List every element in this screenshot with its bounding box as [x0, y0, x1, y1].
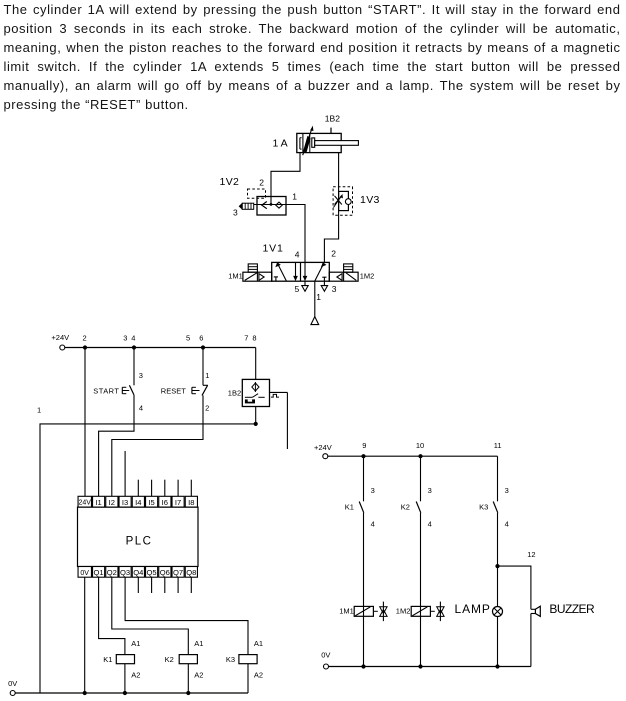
svg-text:Q4: Q4 [133, 568, 143, 577]
svg-text:I1: I1 [95, 498, 101, 507]
junction node wire 10 [418, 454, 422, 458]
solenoid 1M1 of valve 1V1 [228, 264, 271, 281]
svg-text:12: 12 [527, 550, 535, 559]
svg-text:10: 10 [416, 441, 424, 450]
svg-text:A1: A1 [194, 639, 203, 648]
svg-text:4: 4 [295, 250, 300, 260]
svg-text:Q8: Q8 [186, 568, 196, 577]
port labels of valve 1V1 [295, 249, 337, 302]
svg-text:4: 4 [139, 403, 143, 412]
+24V rail (right ladder) [328, 455, 498, 457]
svg-text:1M2: 1M2 [360, 271, 375, 280]
svg-text:1: 1 [316, 292, 321, 302]
svg-text:3: 3 [233, 208, 238, 218]
svg-text:I5: I5 [148, 498, 154, 507]
svg-text:0V: 0V [80, 570, 89, 577]
wire PLC output Q3 to relay K3 [125, 577, 248, 654]
wire RESET to PLC input I2 [112, 395, 203, 496]
wire 12 to buzzer [498, 550, 536, 609]
+24V rail (left ladder) [65, 347, 256, 349]
PLC body [78, 507, 199, 566]
svg-text:0V: 0V [8, 679, 17, 688]
svg-text:+24V: +24V [314, 443, 332, 452]
relay contact K2 (NO) [401, 456, 432, 528]
svg-text:I7: I7 [175, 498, 181, 507]
svg-text:Q6: Q6 [160, 568, 170, 577]
wire cylinder right port to throttle 1V3 and valve 1V1 port 2 [324, 153, 338, 263]
wire PLC output Q1 to relay K1 [99, 577, 125, 654]
svg-text:RESET: RESET [161, 386, 186, 395]
svg-text:3: 3 [139, 371, 143, 380]
wire number labels above rail [83, 334, 257, 343]
silencer at 1V2 port 3 [233, 203, 257, 217]
valve link symbol at 1M1 [380, 602, 387, 622]
svg-text:1B2: 1B2 [228, 388, 241, 397]
svg-text:Q2: Q2 [107, 568, 117, 577]
svg-text:Q3: Q3 [120, 568, 130, 577]
wire sensor 1B2 bottom to node [254, 407, 258, 427]
svg-text:A1: A1 [254, 639, 263, 648]
svg-text:5: 5 [186, 334, 190, 343]
svg-text:3: 3 [428, 486, 432, 495]
svg-text:2: 2 [205, 403, 209, 412]
svg-text:1M1: 1M1 [228, 271, 243, 280]
svg-text:K3: K3 [479, 503, 488, 512]
0V supply terminal (right ladder) [321, 651, 330, 670]
svg-text:K2: K2 [401, 503, 410, 512]
wire PLC 0V to 0V rail [83, 577, 87, 695]
svg-text:K1: K1 [345, 503, 354, 512]
one-way flow control valve 1V3 [333, 187, 380, 215]
wire K2 contact to solenoid 1M2 [418, 513, 422, 669]
stubs PLC outputs Q4-Q8 [138, 577, 191, 593]
relay contact K1 (NO) [345, 456, 375, 528]
sensor mark 1B2 on cylinder [325, 113, 340, 133]
air supply at valve 1V1 port 1 [311, 281, 319, 324]
relay contact K3 (NO) [479, 456, 509, 528]
lamp [455, 566, 503, 669]
svg-text:2: 2 [331, 249, 336, 259]
svg-text:4: 4 [371, 520, 375, 529]
stub PLC input I3 [124, 451, 126, 496]
svg-text:1: 1 [292, 192, 297, 202]
svg-text:0V: 0V [321, 651, 330, 660]
svg-text:24V: 24V [78, 500, 91, 507]
relay coil K1 [103, 639, 140, 695]
push button START (NO contact) [93, 348, 143, 413]
svg-text:6: 6 [199, 334, 203, 343]
valve link symbol at 1M2 [437, 602, 444, 622]
+24V supply terminal (left ladder) [51, 333, 69, 350]
0V supply terminal (left ladder) [8, 679, 17, 696]
svg-text:LAMP: LAMP [455, 602, 491, 616]
svg-text:K2: K2 [165, 655, 174, 664]
0V rail (left ladder) [15, 692, 248, 694]
svg-text:START: START [93, 386, 119, 395]
valve 1V1 left position: flow path 2 to 3 [294, 262, 298, 280]
cylinder 1A [273, 127, 359, 156]
svg-text:2: 2 [83, 334, 87, 343]
wire number labels 9 10 11 [362, 441, 501, 450]
0V rail (right ladder) [329, 666, 531, 668]
wire rail to sensor 1B2 [255, 348, 257, 380]
buzzer [531, 602, 595, 667]
svg-text:1: 1 [205, 371, 209, 380]
svg-text:3: 3 [123, 334, 127, 343]
junction node wire 2 [83, 345, 87, 349]
stubs PLC inputs I4-I8 [138, 480, 191, 497]
junction node wire 9 [361, 454, 365, 458]
svg-text:7: 7 [244, 334, 248, 343]
solenoid coil 1M1 (right ladder) [339, 606, 378, 616]
wire 1V2 port 1 to valve 1V1 port 4 [286, 192, 305, 263]
PLC output terminal row [78, 567, 197, 578]
svg-text:1: 1 [37, 406, 41, 415]
svg-text:BUZZER: BUZZER [549, 602, 595, 616]
svg-text:2: 2 [259, 178, 264, 188]
wire rail to PLC 24V input [84, 348, 86, 497]
quick exhaust valve 1V2 [220, 176, 287, 215]
svg-text:4: 4 [428, 520, 432, 529]
svg-text:9: 9 [362, 441, 366, 450]
sensor 1B2 output wire with pulse symbol [270, 392, 288, 449]
svg-text:3: 3 [332, 284, 337, 294]
svg-text:A2: A2 [131, 670, 140, 679]
junction node wire 3 [132, 345, 136, 349]
svg-text:1V2: 1V2 [220, 176, 240, 188]
exhaust port 3 of valve 1V1 [321, 281, 327, 291]
svg-text:A2: A2 [254, 670, 263, 679]
svg-text:1V3: 1V3 [360, 194, 380, 206]
junction node wire 6 [201, 345, 205, 349]
svg-text:I8: I8 [188, 498, 194, 507]
svg-text:K3: K3 [226, 655, 235, 664]
wire START to PLC input I1 [99, 395, 134, 497]
5/2-way valve 1V1 body [263, 243, 330, 282]
solenoid coil 1M2 (right ladder) [396, 606, 435, 616]
svg-text:I4: I4 [135, 498, 141, 507]
wire K1 contact to solenoid 1M1 [361, 513, 365, 669]
solenoid 1M2 of valve 1V1 [329, 264, 374, 281]
PLC input terminal row [78, 496, 197, 507]
valve 1V1 right position: flow path 1 to 2 [315, 263, 326, 281]
exhaust port 5 of valve 1V1 [302, 281, 308, 291]
svg-text:5: 5 [295, 284, 300, 294]
valve 1V1 left position: flow path 1 to 4 [276, 263, 287, 281]
wire K3 contact to node 12 [495, 513, 499, 568]
svg-text:I3: I3 [122, 498, 128, 507]
svg-text:1V1: 1V1 [263, 243, 284, 255]
svg-text:Q7: Q7 [173, 568, 183, 577]
svg-text:4: 4 [505, 520, 509, 529]
svg-text:PLC: PLC [126, 535, 153, 547]
relay coil K2 [165, 639, 204, 695]
svg-text:1M2: 1M2 [396, 607, 411, 616]
wire PLC output Q2 to relay K2 [112, 577, 189, 654]
svg-text:A1: A1 [131, 639, 140, 648]
svg-text:Q1: Q1 [94, 568, 104, 577]
wire cylinder left port to valve 1V2 port 2 [270, 153, 300, 206]
svg-text:+24V: +24V [51, 333, 69, 342]
valve 1V1 left position: blocked port 5 [274, 277, 278, 281]
svg-text:8: 8 [252, 334, 256, 343]
svg-text:I2: I2 [109, 498, 115, 507]
svg-text:Q5: Q5 [147, 568, 157, 577]
svg-text:3: 3 [505, 486, 509, 495]
wire 1 to 0V rail [37, 406, 256, 694]
svg-text:1M1: 1M1 [339, 607, 354, 616]
relay coil K3 [226, 639, 263, 693]
svg-text:1B2: 1B2 [325, 113, 340, 123]
svg-text:4: 4 [131, 334, 135, 343]
svg-text:3: 3 [371, 486, 375, 495]
magnetic proximity sensor 1B2 [228, 379, 270, 406]
valve 1V1 right position: blocked port 3 [322, 277, 326, 281]
svg-text:I6: I6 [162, 498, 168, 507]
+24V supply terminal (right ladder) [314, 443, 332, 459]
valve 1V1 right position: flow path 4 to 5 [303, 262, 307, 280]
push button RESET (NC contact) [161, 348, 210, 413]
svg-text:A2: A2 [194, 670, 203, 679]
svg-text:11: 11 [494, 441, 502, 450]
svg-text:K1: K1 [103, 655, 112, 664]
svg-text:1 A: 1 A [273, 138, 288, 150]
